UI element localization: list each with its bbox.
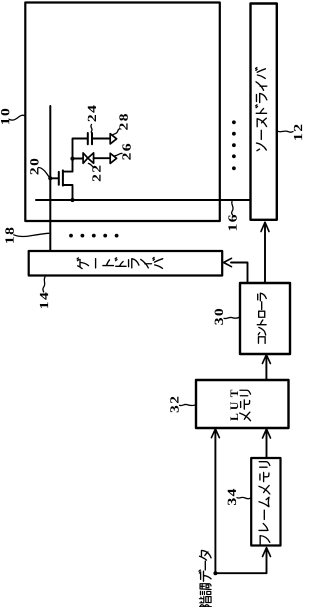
arrowhead into controller xyxy=(262,355,270,364)
leader tilde to 16 xyxy=(232,202,234,216)
label 12 xyxy=(294,125,302,140)
label 28 xyxy=(119,114,128,130)
transistor Q20 gate bar xyxy=(58,172,60,185)
junction dot on source line xyxy=(70,198,74,202)
frame memory U34 box xyxy=(251,458,280,546)
capacitor C24 left plate xyxy=(87,133,89,144)
label 18 xyxy=(5,228,14,243)
leader to 20 xyxy=(38,167,50,178)
junction dot at data line corner xyxy=(213,571,217,575)
common electrode symbol 28 xyxy=(110,134,116,144)
LUT letter T xyxy=(231,390,239,397)
label 24 xyxy=(88,105,96,121)
transistor Q20 gate junction dot xyxy=(48,176,52,180)
wire to storage capacitor xyxy=(73,139,88,159)
label 30 xyxy=(215,309,224,325)
capacitor C24 right plate xyxy=(91,133,93,144)
gate driver U14 box xyxy=(29,251,223,276)
leader to 34 xyxy=(237,497,251,498)
gate driver label text xyxy=(77,257,163,268)
leader to 10 xyxy=(10,115,26,120)
label 10 xyxy=(1,109,10,124)
gradation data input wire xyxy=(215,430,266,574)
label 20 xyxy=(30,159,38,175)
transistor Q20 drain lead xyxy=(63,159,73,172)
wire capacitor to electrode 28 xyxy=(92,138,110,140)
leader to 26 xyxy=(115,153,122,155)
memory katakana column xyxy=(240,390,251,420)
arrowhead into LUT from data line xyxy=(211,429,219,438)
transistor Q20 source lead xyxy=(63,185,73,200)
transistor Q20 channel bar xyxy=(62,170,64,185)
source driver U12 box xyxy=(251,4,277,220)
leader to 12 xyxy=(278,131,293,132)
arrowhead into source driver xyxy=(261,222,269,231)
wire node to LC element xyxy=(73,158,84,160)
leader to 14 xyxy=(43,277,45,292)
controller U30 box xyxy=(240,283,290,354)
pixel node junction dot xyxy=(70,157,74,161)
LUT letter U xyxy=(231,402,239,410)
leader to 30 xyxy=(224,317,240,319)
liquid crystal element 22 bowtie right xyxy=(88,153,94,163)
label 22 xyxy=(92,166,100,182)
gradation data label text xyxy=(199,550,211,606)
source driver label text xyxy=(256,68,267,151)
frame memory label text xyxy=(259,462,270,545)
gate line 18 wire xyxy=(49,106,51,251)
column of dots between panel and source driver xyxy=(232,120,236,170)
wire LC to electrode 26 xyxy=(94,157,111,159)
wire LUT to controller xyxy=(265,356,267,381)
leader to 28 xyxy=(113,129,120,135)
leader to 32 xyxy=(180,404,197,405)
wire controller to source driver xyxy=(264,223,266,283)
wire controller to gate driver xyxy=(231,263,248,284)
label 14 xyxy=(40,293,48,309)
row of dots between panel and gate driver xyxy=(69,234,118,238)
leader to 18 xyxy=(14,233,49,236)
label 32 xyxy=(170,397,178,413)
LUT letter L xyxy=(231,414,239,421)
leader to 24 xyxy=(91,125,92,134)
leader to 22 xyxy=(88,163,93,167)
wire frame memory to LUT xyxy=(266,430,268,458)
label 34 xyxy=(228,489,236,505)
LUT memory U32 box xyxy=(196,380,289,428)
source line 16 wire xyxy=(36,199,251,201)
label 16 xyxy=(228,215,236,230)
common electrode symbol 26 xyxy=(110,153,116,163)
transistor Q20 gate lead xyxy=(50,177,59,179)
label 26 xyxy=(122,144,130,160)
arrowhead into gate driver xyxy=(224,258,232,266)
controller label text xyxy=(257,293,266,343)
display panel 10 outline xyxy=(25,3,220,222)
arrowhead into LUT xyxy=(263,429,271,438)
arrowhead into frame memory xyxy=(263,548,271,557)
liquid crystal element 22 bowtie left xyxy=(83,153,88,163)
